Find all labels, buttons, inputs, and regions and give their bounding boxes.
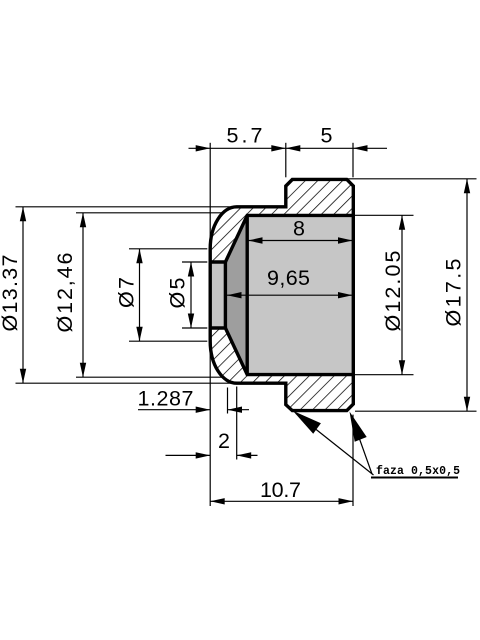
arrow dia13.37 down — [20, 369, 26, 384]
arrow 8 right — [338, 237, 353, 243]
ext line top flange left — [285, 143, 287, 178]
dim line dia12.05 — [401, 215, 403, 374]
svg-text:faza 0,5x0,5: faza 0,5x0,5 — [376, 465, 460, 478]
cone visible surface — [225, 215, 247, 374]
ext line bottom curve end — [236, 387, 238, 460]
cone small end edge circle — [224, 262, 227, 328]
arrow 5 right — [353, 145, 368, 151]
section bottom half outline — [210, 328, 353, 411]
leader arrowhead faza right — [350, 412, 367, 442]
svg-text:5.7: 5.7 — [227, 124, 263, 148]
arrows at flange left — [271, 145, 286, 151]
svg-text:Ø7: Ø7 — [115, 277, 139, 308]
svg-text:Ø12.05: Ø12.05 — [381, 250, 405, 331]
ext line dia13.37 bottom — [16, 382, 235, 384]
dim line dia13.37 — [22, 207, 24, 383]
arrow 9.65 right — [338, 292, 353, 298]
arrow dia7 up — [136, 249, 142, 263]
left face bore opening edge — [208, 262, 211, 328]
arrow 1.287 right — [228, 407, 243, 413]
leader arrowhead faza left — [293, 411, 321, 434]
top dim line 5.7 and 5 — [189, 147, 388, 149]
dim line dia7 — [139, 249, 141, 341]
svg-text:1.287: 1.287 — [138, 387, 194, 411]
section top half hatched — [210, 179, 353, 262]
svg-text:9,65: 9,65 — [267, 266, 310, 290]
ext line top left face — [209, 143, 211, 246]
arrow 1.287 left — [196, 407, 211, 413]
arrow 2 left — [196, 452, 211, 458]
arrow 9.65 left — [227, 292, 242, 298]
ext line dia13.37 top — [16, 206, 235, 208]
ext line dia5 top — [182, 261, 207, 263]
arrow dia7 down — [136, 327, 142, 342]
right face bore opening edge — [352, 215, 355, 374]
ext line top flange right — [352, 143, 354, 178]
svg-text:Ø13.37: Ø13.37 — [0, 255, 22, 332]
ext line dia5 bottom — [182, 327, 207, 329]
ext line bottom flange right — [352, 415, 354, 506]
arrow 2 right — [237, 452, 252, 458]
arrow 5.7 left — [196, 145, 211, 151]
dim line 1.287 — [138, 409, 210, 411]
leader line faza — [296, 414, 374, 476]
section bottom half hatched — [210, 328, 353, 411]
svg-text:8: 8 — [293, 217, 305, 241]
section top half outline — [210, 179, 353, 262]
ext line dia17.5 top — [348, 178, 477, 180]
ext line dia12.05 top — [355, 214, 414, 216]
arrow dia12.46 up — [80, 213, 86, 228]
ext line dia12.46 bottom — [76, 376, 224, 378]
arrow dia13.37 up — [20, 207, 26, 222]
arrow 10.7 left — [210, 498, 225, 504]
ext line dia7 bottom — [129, 340, 207, 342]
arrow dia17.5 down — [464, 397, 470, 412]
dim line 2 — [166, 454, 211, 456]
dim line dia5 — [190, 262, 192, 328]
ext line bottom left face — [209, 345, 211, 506]
svg-text:Ø12,46: Ø12,46 — [53, 252, 77, 332]
ext line dia17.5 bottom — [355, 410, 477, 412]
cone big end edge circle — [245, 215, 248, 374]
arrow dia17.5 up — [464, 179, 470, 194]
arrow dia5 up — [188, 262, 194, 277]
svg-text:Ø17.5: Ø17.5 — [442, 258, 466, 326]
svg-text:Ø5: Ø5 — [166, 277, 190, 308]
ext line dia12.05 bottom — [355, 374, 414, 376]
ext line dia7 top — [129, 248, 207, 250]
arrow dia12.46 down — [80, 363, 86, 378]
ext line bottom cone end — [227, 388, 229, 414]
bore Phi5 visible surface — [210, 262, 225, 328]
dim line dia12.46 — [82, 213, 84, 377]
dim line 8 — [247, 240, 353, 242]
dim line 10.7 — [210, 500, 353, 502]
svg-text:10.7: 10.7 — [260, 478, 301, 502]
dim line dia17.5 — [466, 179, 468, 411]
svg-text:5: 5 — [321, 124, 333, 148]
arrow 8 left — [248, 237, 263, 243]
dim line 9.65 — [227, 294, 354, 296]
arrow dia12.05 down — [399, 360, 405, 375]
arrow dia5 down — [188, 314, 194, 329]
ext line dia12.46 top — [76, 212, 224, 214]
arrow dia12.05 up — [399, 215, 405, 230]
arrow 10.7 right — [339, 498, 354, 504]
svg-text:2: 2 — [218, 429, 230, 453]
bore Phi12.05 visible surface — [247, 215, 353, 374]
